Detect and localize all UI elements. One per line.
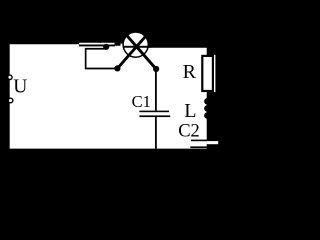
inductor L: coil bump 2 [204, 105, 211, 112]
capacitor C2: top plate [191, 140, 207, 142]
source U: top terminal circle [8, 75, 12, 79]
lamp EL1: X diagonal from node B through center [117, 31, 150, 69]
wire: capacitor C1 down to bottom wire [155, 117, 157, 149]
wire: horizontal wire through lamp toward resistor [123, 46, 152, 48]
node: circuit interior (white region bounded by outer wires) [10, 43, 207, 149]
wire: top wire from source to lamp [79, 45, 115, 47]
svg-text:C2: C2 [178, 122, 200, 142]
capacitor C1: top plate [139, 111, 169, 113]
svg-text:R: R [183, 61, 197, 83]
svg-text:U: U [13, 77, 27, 98]
lamp EL1: white bulb disk [123, 32, 148, 57]
svg-text:C1: C1 [132, 92, 151, 111]
inductor L: coil bump 1 [204, 98, 211, 105]
lamp EL1: X diagonal from node C through center [122, 31, 156, 70]
capacitor C2: bottom plate [190, 146, 207, 148]
node B junction dot [114, 65, 120, 71]
capacitor C1: bottom plate [139, 115, 170, 117]
wire: node C down to capacitor C1 [155, 69, 157, 111]
svg-text:L: L [184, 100, 196, 122]
resistor R: white sliver right of box [214, 55, 215, 92]
inductor L: coil bump 3 [204, 112, 211, 119]
black page background [0, 0, 223, 157]
wire: bypass loop (left, down, bottom to node B) [86, 49, 118, 69]
source U: bottom terminal circle [8, 98, 13, 103]
node C junction dot [153, 66, 159, 72]
node A junction dot on top wire [103, 44, 109, 50]
resistor R: box [202, 56, 213, 91]
capacitor C2: white gap bar over black margin [207, 141, 219, 144]
